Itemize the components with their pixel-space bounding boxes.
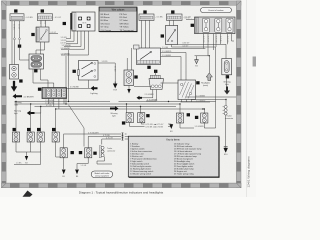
- fusebox output label 2: [207, 36, 209, 43]
- illumination unit: [124, 70, 134, 86]
- hazard warning switch: [149, 75, 164, 89]
- trailer ground wire: [225, 115, 227, 146]
- caption: Diagram 1: [79, 191, 164, 195]
- wire into illumination left pin: [126, 58, 128, 70]
- fuse F1: [203, 18, 210, 32]
- repeater lamp LH: [27, 132, 34, 142]
- border band left: [2, 1, 7, 188]
- warning right text: [111, 112, 118, 118]
- corner marks: [2, 1, 242, 188]
- ground arrow below illumination: [127, 89, 130, 94]
- svg-text:Diagram 1 : Typical hazard/dir: Diagram 1 : Typical hazard/direction ind…: [79, 191, 164, 195]
- wire C1 pin2 down join: [20, 44, 30, 60]
- relay bottom pins: [182, 100, 192, 103]
- lighting switch label 14: [73, 70, 76, 73]
- connector C3: [139, 14, 154, 20]
- wire stair 6 from relay: [61, 31, 89, 55]
- wire hazard rocker to warning arrow: [226, 75, 228, 87]
- headlight feed vertical: [208, 56, 210, 73]
- right top bus y99.5: [191, 99, 226, 101]
- flasher output wire right: [49, 32, 58, 34]
- ground E6: [75, 170, 79, 179]
- connector C2: [37, 14, 52, 21]
- stair wire label 5: [61, 48, 71, 50]
- rear lamp label 25: [195, 116, 198, 119]
- stair wire label 3: [61, 43, 68, 45]
- page background: [0, 0, 256, 197]
- bottom-left label: [16, 163, 22, 165]
- ignition switch label 3: [161, 34, 164, 37]
- wire SC right y48.5: [161, 48, 206, 50]
- side lamp right label: [93, 152, 96, 155]
- small numsq mid: [79, 151, 82, 154]
- side lamp grounds: [64, 158, 88, 169]
- junction dot lamp3: [40, 106, 41, 107]
- bus feed labels small: [45, 100, 54, 107]
- lamp2 feed wire: [30, 104, 32, 132]
- key to items legend: [128, 136, 219, 177]
- wire from flasher bottom 2: [36, 42, 45, 56]
- bottom-left wire run y164.5: [14, 152, 41, 165]
- ground arrow lamps left: [25, 152, 28, 164]
- connector C3 label 7: [143, 10, 146, 13]
- bottom-left page glyph: [23, 191, 33, 197]
- connector strip output wires: [49, 99, 64, 110]
- C2 wire labels vertical: [39, 22, 46, 24]
- wire stair 1 from relay: [66, 30, 71, 39]
- fusebox output wire 2: [207, 34, 209, 56]
- rear indicator lamp A right: [176, 113, 183, 123]
- bottom bus y134: [64, 133, 122, 135]
- fusebox output wire 6: [227, 34, 229, 45]
- connector C1: [10, 14, 24, 21]
- warning light arrow down right: [224, 87, 230, 95]
- border band top: [2, 1, 242, 5]
- wire from C2 pin 1: [40, 20, 42, 27]
- bottom bus y136.5: [88, 136, 121, 138]
- lamp2 ground wire: [30, 142, 32, 152]
- hazard rocker switch label 18: [226, 75, 229, 78]
- rear indicator lamp B right: [201, 113, 208, 123]
- hazard flasher relay: [29, 54, 44, 69]
- fusebox output wire 4: [215, 34, 217, 47]
- border band bottom: [2, 183, 242, 188]
- fusebox: [195, 17, 236, 34]
- wire label 1.5 GN at SC: [162, 47, 169, 49]
- fusebox output label 5: [226, 36, 228, 43]
- fusebox output label 1: [202, 36, 204, 43]
- junction dot lamp1: [15, 101, 16, 102]
- wire C4 pin a down to ignition switch: [169, 20, 171, 25]
- warning light text upper left: [15, 101, 22, 107]
- multi pin connector: [42, 88, 67, 99]
- wire from C1 pin 1: [14, 21, 16, 44]
- flasher unit label 6: [31, 33, 34, 36]
- bus wire y106.5: [35, 106, 177, 113]
- wire label 0.5 BN right of C2: [54, 17, 62, 19]
- ground E10: [224, 147, 228, 157]
- stair wire label 1: [61, 37, 68, 39]
- front indicator lamp 19 label: [13, 128, 16, 131]
- wire hazard bottom out 2: [146, 90, 156, 102]
- right wire 1.5 GN label: [195, 126, 205, 128]
- wire hazard right to relay: [161, 82, 182, 84]
- bus labels right: [196, 95, 206, 102]
- warning arrow left mid: [27, 111, 35, 116]
- wire label 0.5 RD/BK: [70, 87, 80, 89]
- fusebox output wire 5: [220, 34, 222, 45]
- wire label 2.5 GN/BU: [145, 94, 155, 96]
- side lamp feeds: [64, 134, 88, 148]
- lighting switch: [77, 61, 98, 81]
- wire C1 pin1 down to indicator switch: [14, 44, 16, 65]
- wire C3 pin b down: [145, 20, 147, 48]
- half-moon connector pair 3: [122, 138, 124, 141]
- side lamp left: [60, 148, 67, 158]
- trailer connector right: [223, 105, 234, 119]
- lamp3 ground wire: [40, 142, 42, 152]
- fusebox feed wire: [186, 19, 195, 21]
- bottom bus labels: [88, 132, 114, 139]
- bottom bus y139: [102, 138, 121, 140]
- inline connector box mid: [134, 45, 140, 49]
- wire C1 left pin to indicator switch: [11, 21, 13, 65]
- margin vertical text: [247, 156, 251, 188]
- feed arrow left A2: [13, 94, 23, 99]
- instrument lamp 23 label: [146, 114, 149, 117]
- stair wire label 2: [61, 40, 68, 42]
- wire stair 4 from relay: [64, 31, 81, 47]
- fusebox output wire 3: [213, 34, 215, 50]
- junction dot lamp2: [30, 103, 31, 104]
- wire flasher to connector: [41, 69, 49, 88]
- lamp4 ground wire: [56, 142, 64, 157]
- mid ground wire: [168, 124, 171, 127]
- rear indicator lamp 21 label: [37, 128, 40, 131]
- fusebox output wire 7: [232, 34, 235, 41]
- ground E5: [62, 170, 66, 179]
- fuse location label: [201, 8, 232, 13]
- wire from C2 pin 2: [45, 20, 47, 27]
- connector C1 label 2: [14, 9, 17, 12]
- mid lamp ground wires: [130, 123, 145, 127]
- headlights arrow hollow up: [201, 73, 212, 87]
- inline connector on wire 1: [14, 38, 16, 40]
- ground wire right of LS: [114, 63, 116, 82]
- wire from ignition switch right y44: [178, 44, 226, 58]
- junction dot right bus: [202, 108, 203, 109]
- vertical wire x215.6: [215, 47, 217, 128]
- instrument lamp B2 label: [122, 121, 125, 124]
- half-moon connector pair 1: [122, 133, 124, 136]
- wire label right of C3: [155, 17, 163, 19]
- warning arrow right mid: [110, 106, 119, 111]
- wire label 0.75 WH/BK: [147, 99, 158, 101]
- junction dot right bus2: [225, 99, 226, 100]
- right top bus y97: [186, 96, 236, 98]
- indicator switch label 11: [19, 79, 22, 82]
- relay unit U4 label: [63, 22, 66, 25]
- hazard out arrow left: [137, 96, 143, 100]
- trailer2 wires down: [97, 139, 112, 164]
- bus wire y109: [56, 108, 203, 110]
- lamp1 feed wire: [15, 102, 17, 133]
- wire C3 pin a down: [141, 20, 143, 48]
- wire below illumination: [128, 86, 130, 90]
- vertical feed x68.5: [68, 50, 70, 102]
- inline connector on wire 2: [19, 38, 21, 40]
- wire from flasher bottom: [40, 42, 42, 54]
- fusebox output label 4: [219, 36, 221, 43]
- junction dot 1: [65, 103, 66, 104]
- feed label 4.0 BK/WH: [24, 96, 34, 98]
- wire SC right y52.5: [161, 53, 187, 81]
- wire stair 5 from relay: [61, 31, 85, 49]
- side lamp label 26: [71, 151, 74, 154]
- fusebox output wire 1: [203, 34, 205, 49]
- steering column switch: [137, 48, 161, 65]
- warning light text right: [224, 81, 231, 87]
- connector C4 label 8: [171, 10, 174, 13]
- ground E19: [114, 82, 117, 92]
- lighting arrow text: [90, 92, 97, 95]
- wire label 1.5 RD: [102, 61, 109, 63]
- rear lamp label 24: [187, 113, 190, 116]
- flasher unit: [36, 27, 49, 42]
- wire from ignition switch right y47: [172, 45, 216, 48]
- ground E3: [169, 124, 173, 133]
- svg-text:12•61 Wiring diagrams: 12•61 Wiring diagrams: [247, 156, 251, 188]
- bottom label 1.5 GN: [81, 165, 87, 167]
- junction dot 2: [68, 101, 69, 102]
- wire hazard left: [134, 85, 151, 87]
- connector C4: [167, 14, 183, 20]
- connector C2 label 5: [41, 9, 44, 12]
- lamp3 feed wire: [40, 107, 42, 133]
- hazard flasher relay label 10: [34, 69, 37, 72]
- bus wire y101.5: [15, 101, 216, 102]
- chapter thumb tab: [253, 57, 256, 67]
- multi connector label 12: [38, 88, 41, 91]
- indicator switch: [10, 65, 19, 80]
- front indicator lamp RH: [52, 132, 59, 142]
- wire SC right y56.5: [161, 57, 182, 81]
- bus wire y104: [15, 103, 181, 112]
- right relay: [178, 80, 196, 100]
- wire into illumination right pin: [130, 48, 132, 70]
- wire colour table: [99, 7, 137, 32]
- wire hazard switch feed top: [154, 70, 156, 75]
- right lamp feed wires: [179, 103, 205, 113]
- instrument lamp B: [138, 113, 145, 123]
- warning light text left: [14, 110, 21, 116]
- lighting out arrow: [91, 86, 98, 91]
- lamp4 feed wire: [55, 109, 57, 132]
- side lamp right: [85, 148, 92, 158]
- vertical feed x66: [65, 56, 67, 104]
- wire size label vertical right: [18, 24, 20, 30]
- instrument lamp A: [126, 113, 133, 123]
- ground E4 hollow: [195, 56, 199, 68]
- wire LS right to ground wire: [98, 62, 115, 64]
- right lamp ground wires: [180, 123, 216, 128]
- fuse F3: [226, 18, 233, 32]
- wire C4 pin b down to ignition switch: [173, 20, 175, 25]
- fusebox output label 3: [215, 36, 217, 43]
- wire label 1.5 GN/BK at SC: [162, 55, 172, 57]
- lamp1 ground wire: [16, 142, 41, 152]
- steering column switch label 9: [147, 66, 150, 69]
- wire flasher to connector 2: [33, 69, 54, 88]
- wire warning left: [35, 107, 41, 114]
- front indicator lamp 22 label: [52, 128, 55, 131]
- wire label 0.5 GY: [183, 45, 190, 47]
- trailer feed wire: [225, 100, 227, 106]
- wire stair 3 from relay: [66, 31, 78, 44]
- wire hazard bottom left out: [142, 90, 153, 98]
- fuse F2: [215, 18, 222, 32]
- wire stair 2 from relay: [66, 31, 74, 41]
- right top bus y102: [181, 101, 211, 103]
- fusebox label 1: [191, 24, 194, 27]
- models with trailer label: [91, 171, 113, 178]
- battery feed arrow down: [11, 81, 17, 92]
- trailer connector 2: [99, 146, 115, 158]
- wire from halfmoons right: [125, 134, 130, 139]
- mid lamp ground labels: [146, 123, 165, 129]
- relay unit small terminal sq: [99, 23, 103, 26]
- scan grain overlay: [6, 5, 237, 183]
- half-moon connector pair 2: [122, 135, 124, 138]
- front indicator lamp LH: [12, 132, 19, 142]
- fusebox feed label: [185, 18, 192, 20]
- headlight feed horizontal: [195, 55, 211, 56]
- hazard rocker switch: [222, 59, 232, 75]
- stair wire label 6: [61, 53, 71, 55]
- repeater lamp 20 label: [27, 128, 30, 131]
- wire C3 pin c down: [149, 20, 151, 48]
- page margin crease: [246, 0, 248, 197]
- border band right: [236, 1, 241, 188]
- wire label 1.5 GN/RD at SC: [162, 51, 172, 53]
- wire label 0.5 BK vertical: [113, 66, 115, 72]
- connector numsq 13: [18, 45, 21, 48]
- relay unit U4 black bar: [70, 13, 72, 30]
- right relay label 17: [196, 81, 199, 84]
- stair wire label 4: [62, 45, 72, 47]
- wire size label vertical left: [13, 24, 15, 30]
- relay unit U4: [72, 12, 95, 31]
- wire LS bottom down: [66, 80, 91, 88]
- wire from C1 pin 2: [19, 21, 21, 44]
- hazard warning switch label 16: [154, 70, 157, 73]
- rear indicator lamp LH: [37, 132, 44, 142]
- diagonal wire to lamp10: [69, 105, 85, 147]
- illumination unit label 15: [134, 75, 137, 78]
- ignition switch: [166, 26, 178, 45]
- wire label 0.5 BN: [25, 17, 33, 19]
- junction dot lamp4: [55, 108, 56, 109]
- wire label 0.35 GY: [183, 43, 191, 45]
- wire label right of C4: [183, 17, 191, 19]
